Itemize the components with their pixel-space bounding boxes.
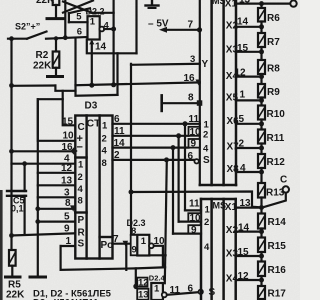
D3 right pin 2 wire: [113, 159, 195, 161]
node pin9 branch: [171, 145, 176, 150]
node on W1: [111, 82, 116, 87]
wire output node up to cross: [112, 0, 114, 85]
wire D2.2 output: [104, 28, 113, 30]
gate D2.2 output bubble pin 4: [99, 27, 104, 32]
node D2.4 input junction: [133, 284, 138, 289]
MS1 X6 pin wire: [236, 123, 262, 125]
gate D2.2 body: [88, 16, 100, 39]
resistor R5: [6, 250, 21, 277]
D3 right pin 11 wire: [113, 135, 189, 137]
gate D2.4 output bubble: [162, 292, 167, 297]
resistor R1 (cut at top) value 22K: [47, 0, 64, 19]
MS1 X2 pin wire: [236, 26, 262, 28]
gate D2.4 input box 13: [137, 289, 148, 300]
MS1 X5 pin wire: [236, 99, 262, 101]
node junction left rail top: [9, 36, 14, 41]
D2.3 bottom extension: [149, 254, 165, 256]
resistor R16: [258, 256, 265, 280]
node pin11 branch: [183, 121, 188, 126]
resistor R15: [258, 232, 265, 256]
MS1 X8 pin wire: [236, 171, 262, 173]
node pin16 junction: [196, 80, 201, 86]
MS1 X4 pin wire: [236, 75, 262, 77]
MS2 pin 10 label box + wire: [188, 213, 201, 224]
wire Y bus vertical x=199.5 (MS1 left edge): [199, 0, 201, 185]
wire terminal C to chain: [262, 193, 286, 208]
node pin6 branch: [164, 157, 169, 162]
node D2.2 output junction: [111, 27, 116, 32]
resistor R8: [258, 52, 265, 77]
wire Po junction down: [125, 244, 127, 270]
D3 right pin 14 wire: [113, 147, 189, 149]
wire W1 rail to MS1 pin 16: [12, 84, 56, 87]
scan edge shadow: [0, 190, 3, 300]
MS1 X3 pin wire: [236, 51, 262, 53]
resistor R13: [258, 172, 265, 208]
gate D2.4 input box 12: [137, 278, 147, 287]
gate D2.3 body: [137, 235, 149, 256]
MS1 S input bubble: [194, 159, 198, 163]
gate D2.4 body: [151, 283, 163, 300]
MS2 pin 9 label box + wire: [188, 225, 201, 236]
capacitor C5: [7, 164, 26, 235]
node R13 bottom junction: [259, 205, 264, 210]
node pin8 junction: [197, 100, 203, 106]
grounded data bus vertical: [37, 99, 39, 276]
D3 right pin 6 wire: [113, 123, 200, 125]
MS2 S input bubble: [199, 290, 203, 294]
resistor R10: [258, 100, 265, 123]
long wire to MS2 X1 region: [131, 192, 262, 208]
resistor R11: [258, 124, 265, 148]
wire D2.3 output to D2.4: [154, 246, 163, 268]
gate D2.2 input pin 5 wedge: [69, 8, 90, 22]
MS1 pin 9 label box: [189, 139, 200, 150]
MS1 X1 pin wire to terminal: [236, 2, 291, 4]
sensor plate bar E1: [160, 95, 163, 111]
multiplexer MS2 body: [201, 199, 236, 300]
counter D3 pin 7 Po wire: [113, 243, 131, 245]
wire D2.4 output to MS2 S: [167, 292, 198, 295]
resistor R7: [258, 27, 265, 52]
node pin14 wire on W1: [89, 83, 94, 88]
node Po junction: [123, 241, 129, 247]
ground bar for data bus: [30, 276, 46, 279]
resistor R9: [258, 77, 265, 101]
wire pin 3 to MS1: [131, 64, 200, 65]
wire -5V arrow to pin 7: [159, 27, 200, 33]
resistor R12: [258, 148, 265, 172]
wire feedback branch down to W2: [116, 53, 118, 95]
resistor R6: [258, 4, 265, 27]
node junction X-vertical: [63, 35, 68, 40]
wire W2 to D2.3: [76, 91, 118, 96]
wire feedback loop down-left: [87, 40, 137, 54]
node pin 7 junction: [197, 27, 202, 32]
wire pin15 feed: [63, 91, 76, 126]
MS1 pin 10 label box: [189, 127, 202, 138]
counter D3 body: [75, 116, 112, 259]
node x131 on long wire: [129, 190, 134, 195]
node chain top: [259, 1, 264, 6]
gate D2.1 cross-coupling X wires: [63, 1, 114, 38]
resistor R14: [258, 208, 265, 232]
wire W2 vertical x=131: [130, 64, 132, 235]
terminal circle top right: [290, 0, 296, 6]
verticals from address wires down to MS2: [184, 124, 186, 211]
multiplexer MS1 body: [200, 0, 236, 185]
wire pin10 feed: [38, 99, 76, 141]
wire left rail vertical: [10, 39, 12, 250]
switch S2 lever: [27, 32, 47, 39]
resistor R2: [48, 38, 63, 76]
wire main top rail y=38.5: [8, 38, 27, 40]
pin 14 power arrow under D2.2: [89, 40, 94, 85]
MS2 X2 pin wire: [236, 231, 262, 233]
MS2 X3 pin wire: [236, 255, 262, 257]
wire latch to counter feed: vertical from main wire: [55, 38, 75, 91]
wire after switch to gate input 6: [46, 37, 88, 39]
MS2 X4 pin wire: [236, 279, 262, 281]
node W1 left rail: [9, 83, 14, 88]
ground symbol top middle: [146, 0, 159, 8]
gate D2.3 input label box: [131, 235, 138, 255]
MS2 X1 pin wire: [236, 207, 262, 209]
wire sensor to MS1 pin 8: [162, 102, 200, 104]
wire latch feedback vertical: [135, 0, 137, 53]
node pin10 branch: [176, 133, 181, 138]
gate D2.3 output bubble: [149, 243, 154, 248]
resistor R17: [258, 280, 265, 299]
wire S pin down and right: [61, 246, 166, 270]
node junction R2 top: [54, 36, 58, 40]
MS1 X7 pin wire: [236, 147, 262, 149]
paper grain: [0, 0, 1, 1]
